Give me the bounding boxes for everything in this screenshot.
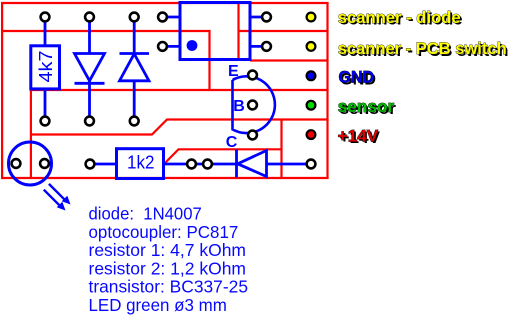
svg-text:+14V: +14V — [338, 126, 379, 145]
node pad optocoupler pin bottom-right — [262, 42, 271, 51]
wire optocoupler pin stubs — [163, 17, 267, 46]
node pad optocoupler pin bottom-left — [158, 42, 167, 51]
wire trace H6 + diagonal jog + H5 — [31, 120, 328, 135]
diode D2 triangle — [120, 54, 150, 81]
wire trace V4 through optocoupler — [237, 3, 239, 61]
svg-text:sensor: sensor — [338, 97, 395, 116]
wire outer border bottom H8 — [1, 177, 329, 179]
svg-text:scanner - diode: scanner - diode — [338, 8, 461, 27]
svg-text:transistor: BC337-25: transistor: BC337-25 — [89, 277, 249, 297]
svg-text:resistor 1: 4,7 kOhm: resistor 1: 4,7 kOhm — [89, 240, 247, 260]
diode D1 cathode bar — [75, 82, 105, 85]
note parts list text block — [89, 204, 249, 316]
node pad optocoupler pin top-right — [262, 13, 271, 22]
node pad +14V red — [307, 130, 316, 139]
net label GND — [339, 68, 376, 89]
node pad LED cathode — [12, 159, 21, 168]
wire trace V5 right of +14V zone — [280, 120, 282, 179]
wire trace H4 mid horizontal — [31, 89, 328, 91]
node pad LED anode — [40, 159, 49, 168]
node pad jumper left — [187, 160, 196, 169]
svg-text:C: C — [226, 134, 238, 151]
wire 1k2 to diode D3 — [164, 163, 237, 166]
svg-text:optocoupler: PC817: optocoupler: PC817 — [89, 222, 239, 242]
node pad bottom row 3 — [130, 117, 139, 126]
node pad top row 1 — [41, 13, 50, 22]
svg-text:GND: GND — [339, 68, 375, 87]
wire trace H7 + diagonal from 1k2 — [164, 149, 282, 164]
wire trace H3 below PCB-switch row — [250, 59, 328, 61]
svg-text:resistor 2: 1,2 kOhm: resistor 2: 1,2 kOhm — [89, 258, 247, 278]
svg-text:diode: 1N4007: diode: 1N4007 — [89, 204, 202, 224]
svg-text:1k2: 1k2 — [127, 153, 155, 173]
node pad top row 3 — [130, 13, 139, 22]
diode D1 lead — [88, 17, 91, 121]
net label scanner - PCB switch — [338, 39, 508, 60]
node pad bottom row 2 — [85, 117, 94, 126]
net label scanner - diode — [338, 8, 463, 29]
wire diode D3 to +14V pad — [267, 163, 312, 166]
net label +14V — [338, 126, 381, 147]
node pad jumper right — [203, 160, 212, 169]
node pad transistor C — [248, 131, 257, 140]
wire outer border right V6 — [326, 3, 328, 178]
svg-text:4k7: 4k7 — [36, 51, 56, 83]
node pad top row 2 — [85, 13, 94, 22]
node pad GND blue — [307, 71, 316, 80]
resistor R2 body 1k2 — [117, 149, 164, 179]
wire trace V2 vertical through LED — [30, 90, 32, 178]
transistor Q1 body — [233, 76, 275, 133]
wire resistor R1 leads — [44, 17, 47, 121]
op-amp U1 pin1 dot — [187, 40, 198, 51]
svg-text:E: E — [228, 63, 239, 80]
diode D2 lead — [133, 17, 136, 121]
wire trace H2b top right — [239, 30, 328, 32]
node pad bottom row 1 — [41, 117, 50, 126]
op-amp U1 optocoupler box — [180, 3, 250, 60]
LED D4 light arrows — [44, 184, 71, 211]
node pad sensor green — [307, 101, 316, 110]
diode D3 triangle — [238, 151, 267, 177]
svg-text:LED green ø3 mm: LED green ø3 mm — [89, 295, 227, 315]
resistor R1 body 4k7 — [31, 46, 60, 89]
diode D1 triangle — [75, 54, 105, 81]
node pad scanner-diode yellow — [307, 13, 316, 22]
LED D4 body circle — [9, 142, 52, 185]
svg-text:scanner - PCB switch: scanner - PCB switch — [338, 39, 507, 58]
svg-text:B: B — [233, 98, 245, 115]
pads: open pads — [12, 13, 316, 169]
node pad transistor E — [248, 71, 257, 80]
node pad optocoupler pin top-left — [158, 13, 167, 22]
node pad +14V wire end — [307, 160, 316, 169]
wire trace H2 with corner down V3 — [1, 31, 210, 90]
diode D3 cathode bar — [235, 150, 238, 178]
net label sensor — [338, 97, 397, 118]
wire outer border top H1 — [1, 2, 329, 4]
diode D2 cathode bar — [120, 52, 150, 55]
wire outer border left V1 — [1, 3, 3, 178]
node pad transistor B — [248, 101, 257, 110]
wire 1k2 left lead — [90, 163, 117, 166]
node pad 1k2 left — [86, 160, 95, 169]
node pad scanner-PCB-switch yellow — [307, 42, 316, 51]
